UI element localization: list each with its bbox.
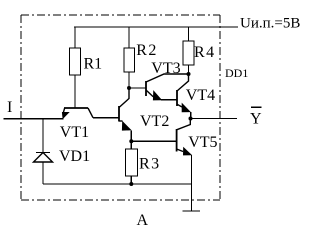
svg-text:DD1: DD1 [225, 66, 248, 80]
resistor R3 [126, 149, 161, 184]
node R2-VT2 collector junction [127, 86, 131, 90]
output node junction [189, 117, 193, 121]
resistor R2 [124, 27, 158, 72]
supply rail wire [74, 26, 238, 28]
wire R1 bottom to VT1 base [74, 75, 76, 108]
wire R2 bottom to node [128, 72, 130, 88]
svg-text:VT1: VT1 [60, 124, 89, 141]
svg-text:A: A [137, 212, 149, 228]
wire node to VT3 base [129, 87, 146, 89]
bottom ground bus wire [43, 183, 192, 185]
svg-text:I: I [7, 99, 12, 116]
svg-text:VT5: VT5 [188, 134, 217, 151]
transistor VT4 [177, 74, 215, 119]
node R3 bottom junction [129, 182, 133, 186]
svg-text:R2: R2 [136, 42, 158, 59]
svg-text:VD1: VD1 [59, 148, 90, 165]
svg-text:Y: Y [250, 110, 262, 127]
transistor VT1 input [60, 108, 93, 141]
wire VT5 emitter to ground [191, 155, 193, 211]
label Y with overline [250, 107, 262, 127]
transistor VT3 [146, 60, 189, 100]
wire VT3 emitter to VT4 base [161, 99, 176, 101]
wire R4 bottom to node [188, 65, 190, 74]
transistor VT5 output [177, 119, 218, 156]
output wire to Y [191, 118, 238, 120]
transistor VT2 phase splitter [119, 88, 169, 149]
svg-text:R3: R3 [139, 156, 161, 173]
IC DD1 boundary dash-dot frame [21, 15, 220, 200]
node R4-VT3-VT4 collectors junction [187, 72, 191, 76]
svg-text:Uи.п.=5В: Uи.п.=5В [240, 16, 300, 32]
input wire I [4, 118, 64, 120]
svg-text:VT4: VT4 [186, 87, 215, 104]
wire node to VT5 base [131, 140, 176, 142]
svg-text:VT3: VT3 [151, 60, 180, 77]
svg-text:VT2: VT2 [140, 113, 169, 130]
diode VD1 input clamp [34, 119, 91, 184]
node VT2 emitter R3 VT5 base junction [129, 139, 133, 143]
resistor R4 [183, 27, 216, 65]
resistor R1 [70, 27, 103, 75]
svg-text:R1: R1 [84, 56, 103, 73]
ground symbol [183, 210, 201, 212]
wire VT1 collector to VT2 base [93, 117, 119, 119]
svg-text:R4: R4 [194, 44, 216, 61]
